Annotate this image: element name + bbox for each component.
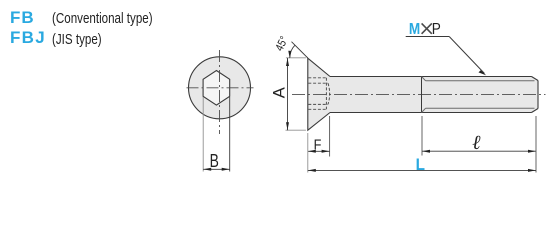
svg-text:L: L [416, 155, 425, 174]
svg-text:45°: 45° [273, 34, 291, 53]
svg-text:B: B [210, 151, 219, 171]
svg-text:M: M [409, 21, 420, 38]
svg-text:P: P [432, 21, 441, 38]
svg-text:F: F [314, 135, 322, 152]
svg-text:ℓ: ℓ [472, 132, 481, 154]
svg-text:A: A [270, 87, 288, 98]
